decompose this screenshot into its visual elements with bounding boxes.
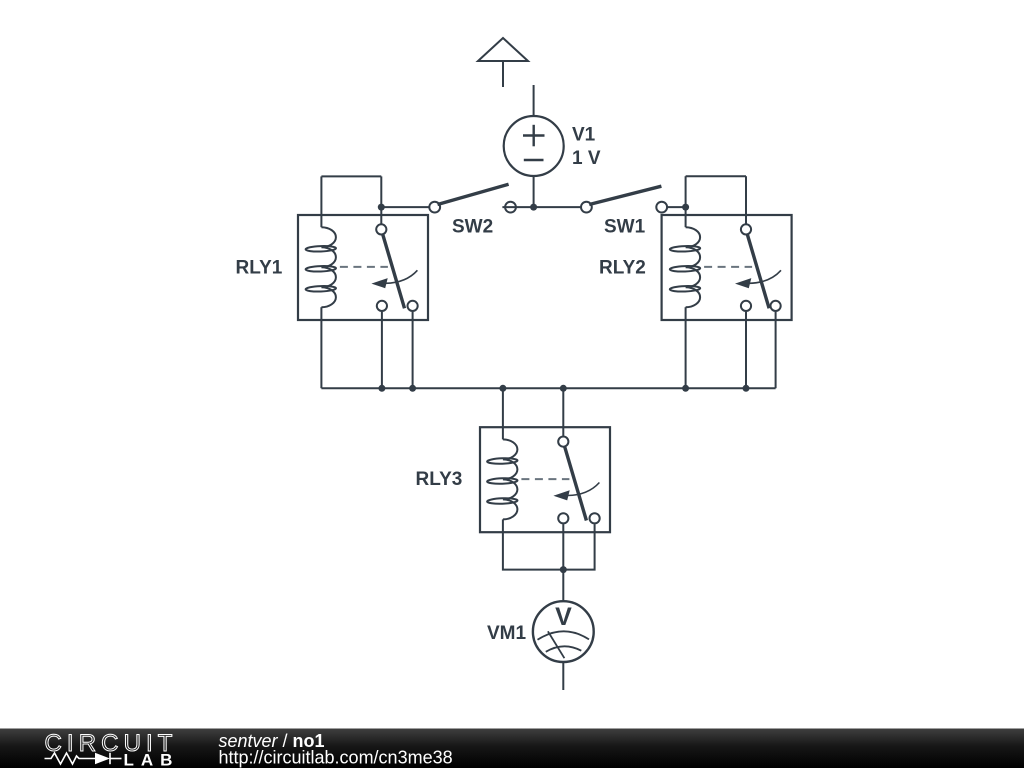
wire RLY1 NC terminal down (381, 312, 383, 389)
wire RLY3 NO terminal down (563, 524, 594, 570)
node junction bus RLY1 NO (409, 385, 416, 392)
wire RLY2 NO terminal down (775, 312, 777, 389)
wire RLY3 common top (562, 388, 564, 436)
wire SW2 to junction (502, 206, 533, 208)
wire SW1 to RLY2 (668, 206, 686, 208)
node junction V1-SW (530, 204, 537, 211)
svg-text:VM1: VM1 (487, 623, 527, 644)
relay RLY3 (480, 427, 610, 532)
wire V1 bottom (533, 176, 535, 207)
relay RLY2 (662, 215, 792, 320)
footer bar (0, 729, 1024, 768)
node junction bus RLY2 NC (743, 385, 750, 392)
wire V1 top (533, 85, 535, 116)
wire SW1 left (534, 206, 581, 208)
wire RLY1 coil bottom (320, 320, 322, 388)
wire RLY3 coil bottom (503, 532, 563, 569)
node junction RLY1-SW2 (378, 204, 385, 211)
svg-text:http://circuitlab.com/cn3me38: http://circuitlab.com/cn3me38 (219, 747, 453, 767)
svg-text:LAB: LAB (124, 750, 180, 768)
wire RLY2 NC terminal down (745, 312, 747, 389)
relay RLY1 (298, 215, 428, 320)
node junction bus RLY3 common (560, 385, 567, 392)
switch SW2 (429, 184, 516, 212)
svg-text:V1: V1 (572, 125, 596, 146)
svg-text:1 V: 1 V (572, 148, 601, 169)
logo resistor-diode glyph (45, 753, 122, 764)
node junction SW1-RLY2 (682, 204, 689, 211)
wire RLY3 NC terminal down (562, 524, 564, 570)
wire SW2 left (381, 206, 428, 208)
wire VM1 bottom (562, 662, 564, 690)
svg-text:V: V (555, 603, 572, 631)
voltmeter VM1 (533, 601, 594, 662)
svg-text:RLY2: RLY2 (599, 258, 646, 279)
node junction bus RLY2 coil (682, 385, 689, 392)
node junction RLY3 bottom (560, 566, 567, 573)
wire RLY2 loop top (686, 176, 746, 227)
svg-text:SW2: SW2 (452, 217, 493, 238)
switch SW1 (581, 186, 667, 212)
svg-text:RLY1: RLY1 (236, 258, 283, 279)
node junction bus RLY1 NC (378, 385, 385, 392)
wire RLY1 NO terminal down (412, 312, 414, 389)
node junction bus RLY3 coil (499, 385, 506, 392)
wire RLY3 coil top (502, 388, 504, 439)
voltage source V1 (504, 116, 564, 176)
power flag PWR1 (478, 38, 528, 87)
wire RLY2 coil bottom (685, 320, 687, 388)
svg-text:RLY3: RLY3 (416, 469, 463, 490)
wire RLY1 loop top (321, 176, 381, 227)
wire to voltmeter (562, 570, 564, 602)
wire main bus (321, 387, 775, 389)
svg-text:SW1: SW1 (604, 217, 646, 238)
